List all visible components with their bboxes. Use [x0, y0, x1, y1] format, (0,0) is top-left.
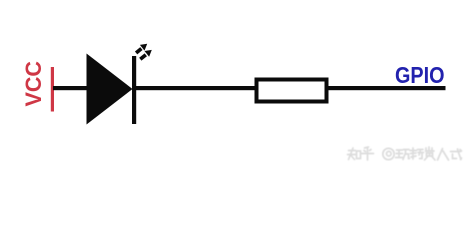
wire resistor R1 to GPIO pin [328, 86, 446, 90]
watermark at-sign [383, 148, 394, 159]
LED emission arrow 1 [136, 44, 147, 53]
svg-text:VCC: VCC [21, 61, 46, 107]
LED D1 cathode bar [132, 56, 136, 124]
svg-text:GPIO: GPIO [395, 62, 445, 88]
LED D1 anode triangle [87, 54, 133, 125]
watermark zhihu wordmark glyphs [348, 147, 374, 160]
resistor R1 body [257, 80, 327, 102]
LED emission arrow 2 [140, 50, 152, 59]
wire VCC rail to LED anode [53, 86, 87, 90]
VCC power rail bar [51, 67, 54, 112]
watermark handle glyphs [396, 147, 462, 160]
wire LED cathode to resistor R1 [136, 86, 256, 90]
